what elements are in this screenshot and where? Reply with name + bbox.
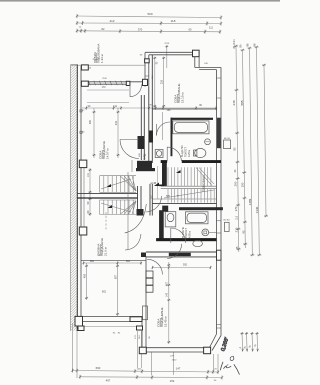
left exterior wall [71,65,84,332]
porch east wall [144,53,146,87]
svg-text:15.45 м: 15.45 м [164,317,168,327]
svg-text:500: 500 [147,12,152,16]
notch top wall [195,67,221,69]
stairs [100,167,215,214]
building outline [75,50,221,354]
svg-text:147: 147 [176,367,181,371]
window block right wall [217,250,222,260]
bottom-right short dim lines [241,332,244,351]
left room top boundary [81,259,146,261]
svg-text:25 10 21: 25 10 21 [233,39,236,49]
window block bottom-left [130,317,142,322]
dashed line left hall [105,212,107,231]
svg-text:170: 170 [234,206,238,211]
svg-text:152: 152 [170,379,175,383]
right wall outer [220,68,222,336]
svg-text:+0.45: +0.45 [150,183,157,185]
svg-text:ГАРД.: ГАРД. [144,153,147,160]
left room dim v2 [86,263,88,300]
corridor dim line [157,166,159,199]
upper bath boiler circle [205,139,211,145]
svg-text:1340: 1340 [255,206,259,213]
interior face [80,66,82,317]
svg-text:587: 587 [114,274,117,279]
bath door [171,228,186,243]
left room dim h [83,262,142,264]
center wall [148,87,150,163]
right dim line A [236,46,239,252]
bottom wall left section [75,316,143,318]
inner edge dark [76,65,78,332]
svg-text:210: 210 [234,227,238,232]
corridor door arc [167,244,182,259]
scan top edge [0,0,280,2]
lower bath tub [186,212,209,224]
pier foot left [78,326,84,331]
fixtures [130,121,231,322]
interior dim v x118 [117,108,119,158]
top wall [145,51,193,53]
thick bar above stairs [137,161,152,170]
right wall dark segment [217,118,221,149]
pier 1 [81,65,88,70]
pier 4 [79,227,87,235]
step east wall [194,57,196,68]
right dim line E [264,65,266,216]
extension lines to bottom dims [72,323,74,372]
svg-text:ВЦ-ДЕПО: ВЦ-ДЕПО [181,145,184,157]
top dim line 3 [77,31,220,32]
porch front wall [81,81,147,83]
svg-text:370: 370 [138,28,143,32]
bottom dim line 1 [73,371,219,373]
right dim line C [250,48,253,255]
bath bottom wall [156,238,216,241]
beam line 2 [87,102,129,104]
svg-text:200: 200 [233,181,237,186]
doors [87,85,186,275]
interior dim v x94 [93,108,95,158]
main stair left wall [162,163,167,186]
wardrobe stack [146,271,153,278]
svg-text:118: 118 [171,19,176,23]
svg-text:4.85 м: 4.85 м [188,230,191,238]
porch door [129,85,131,97]
bidet [193,240,203,246]
svg-text:141: 141 [113,105,118,108]
outer edge [70,65,72,332]
interior dim v x90 [89,168,91,216]
svg-text:140: 140 [166,292,169,297]
upper bath tub [173,121,209,134]
divider wall left/right sections [141,322,143,348]
west wall piers [75,59,149,331]
bottom wall right section [139,347,206,349]
svg-text:ПОД КОВАНА: ПОД КОВАНА [202,175,206,192]
door jamb square porch [126,81,130,85]
upper-left room door [120,139,139,141]
pier bottom-left [75,316,83,326]
upper bath L-wall horizontal [171,118,214,120]
svg-text:467: 467 [166,281,169,286]
lower bath sink [165,212,176,227]
svg-text:4.25 м: 4.25 м [188,149,191,157]
porch beam [87,89,129,91]
stub below right room [150,352,152,375]
radiators [224,140,231,149]
pier bottom left of right section [139,347,146,354]
svg-text:216: 216 [161,79,164,84]
svg-text:141: 141 [87,172,90,177]
dark corner below stairs [137,209,144,216]
svg-text:110: 110 [235,215,238,219]
handwriting [220,336,239,375]
svg-text:412: 412 [109,19,114,23]
pier bottom right [204,347,211,354]
dim stub above top wall [166,45,168,68]
terrace line [78,326,143,328]
hall big arc [125,204,147,233]
hatch top cap [71,64,78,66]
svg-text:251021: 251021 [93,59,101,61]
interior dim v x162.5 bath [162,112,164,140]
left room dim v [117,263,119,316]
svg-text:690: 690 [96,366,101,370]
porch pier right [143,79,148,85]
upper bath sink [155,150,163,158]
svg-text:592: 592 [183,264,188,267]
svg-text:21.6 м: 21.6 м [104,247,108,256]
step block [193,50,200,57]
upper bath north wall [152,108,217,110]
elevation markers [107,170,181,208]
svg-text:864: 864 [126,260,131,263]
svg-text:497: 497 [106,379,111,383]
svg-text:902: 902 [102,291,107,294]
dimension ticks [71,14,268,380]
svg-text:196: 196 [167,109,172,112]
door jamb dark block upper-left room [138,136,145,149]
upper bath toilet [195,148,206,157]
interior walls [77,55,223,260]
wall hatching [71,65,77,331]
svg-text:390: 390 [89,119,92,124]
upper bath entry door [166,147,168,161]
svg-text:585: 585 [240,100,244,105]
upper bath L-wall vertical [171,118,173,157]
hall/bath wall [152,202,216,204]
svg-text:ТОАЛЕТ: ТОАЛЕТ [184,147,187,157]
bottom dim line 2 [80,376,222,379]
svg-text:ВС 80: ВС 80 [224,138,231,140]
pier 2 [81,81,88,86]
main stair lines [161,185,217,187]
right room door arc [147,259,162,274]
pier 3 [79,160,87,168]
interior dim v x163 [163,57,165,109]
window rect top wall [145,59,150,63]
svg-text:441: 441 [115,120,118,125]
svg-text:15.10 м: 15.10 м [181,93,185,103]
window sill ticks right wall [217,77,222,79]
svg-text:1489: 1489 [248,198,252,205]
right room dim v [168,262,170,344]
right dim line B [243,50,246,248]
right room dim h [152,267,211,269]
svg-text:150: 150 [241,182,245,187]
hall wall [127,172,129,250]
svg-text:248: 248 [232,100,236,105]
flight divider [77,193,137,195]
svg-text:111: 111 [209,26,213,30]
dimension lines [71,16,266,378]
lower-left arc [125,234,141,250]
right wall inner [216,70,218,334]
bath left wall [159,210,164,240]
chamfer [210,334,217,348]
corridor wall upper [140,95,142,160]
corridor wall right section [146,251,217,253]
door jamb dark block [149,131,153,143]
upper bath door arc [157,122,171,136]
svg-text:14.57 м: 14.57 м [106,149,110,159]
glazing ticks porch [89,81,91,85]
stair landing arc [146,196,162,212]
right dim line D [257,47,260,255]
svg-text:ВС 80: ВС 80 [223,220,230,222]
interior horizontal dim line [82,107,216,109]
top dim line 1 [77,16,221,18]
svg-text:1.33 м: 1.33 м [100,54,104,63]
lower bath toilet [202,229,209,236]
top dim line 2 [77,22,221,25]
stub bottom right wall [173,352,175,375]
canopy line above porch [71,64,145,66]
stair zone walls [137,186,139,210]
stubs below left room [137,331,139,368]
west window frame line [83,168,85,227]
bath top wall [161,160,167,163]
pier foot right [137,326,143,330]
svg-text:884: 884 [90,260,95,263]
interior dim v x155.5 [154,57,156,109]
svg-text:458: 458 [83,273,86,278]
